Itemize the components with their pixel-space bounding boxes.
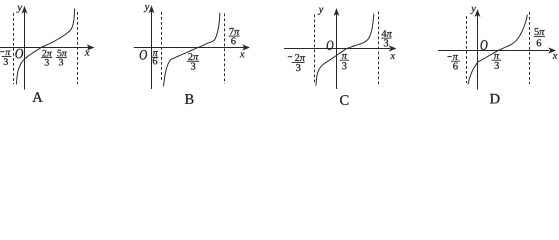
graph D x-axis (438, 50, 549, 52)
graph D right asymptote dashed (529, 12, 531, 84)
graph D left asymptote dashed (466, 16, 468, 83)
graph A choice letter A (32, 92, 42, 102)
graph B x-axis (134, 47, 244, 49)
graph C x label (390, 54, 395, 59)
graph D choice letter D (490, 94, 500, 104)
graph D label 5pi/6 numerator (535, 28, 545, 35)
graph B label 7pi/6 denominator (231, 37, 236, 44)
graph B label 2pi/3 bar (187, 60, 200, 62)
graph C label 4pi/3 bar (381, 37, 391, 39)
graph A label pi/3 denominator (4, 58, 8, 65)
graph A x label (85, 51, 90, 56)
graph C left asymptote dashed (314, 15, 316, 85)
graph D y label (470, 7, 476, 14)
graph C x-axis arrow (389, 45, 397, 51)
graph D y-axis arrow (475, 9, 481, 17)
graph B label 2pi/3 numerator (188, 53, 198, 60)
graph D origin O (481, 40, 488, 50)
graph B y-axis arrow (149, 5, 155, 13)
graph C y label (318, 8, 324, 15)
graph C right asymptote dashed (378, 12, 380, 85)
graph D y-axis (477, 11, 479, 90)
graph B left asymptote dashed (161, 12, 163, 80)
graph D x-axis arrow (548, 47, 556, 53)
graph C label 2pi/3 numerator (295, 54, 305, 61)
graph D label pi/6 bar (451, 60, 460, 62)
graph A label -pi/3 minus sign (0, 51, 4, 53)
graph A label 2pi/3 denominator (45, 59, 49, 66)
graph B origin O (140, 50, 147, 60)
graph A y label (17, 6, 23, 13)
graph C tangent curve (316, 14, 374, 86)
graph C label 4pi/3 numerator (382, 30, 392, 37)
graph D label 5pi/6 denominator (537, 39, 542, 46)
graph B label 2pi/3 denominator (191, 63, 195, 70)
graph B tangent curve (164, 13, 220, 86)
graph C x-axis (284, 48, 390, 50)
graph B y label (144, 5, 150, 12)
graph B label pi/6 bar (152, 56, 159, 58)
graph C label pi/3 bar (340, 59, 349, 61)
graph A label pi/3 numerator (5, 51, 10, 56)
graph A x-axis (0, 47, 89, 49)
graph A tangent curve (16, 9, 74, 84)
graph C y-axis (336, 10, 338, 89)
graph B label 7pi/6 numerator (230, 28, 240, 35)
graph B x-axis arrow (242, 44, 250, 50)
graph C label 4pi/3 denominator (384, 39, 388, 46)
graph C label pi/3 denominator (342, 62, 346, 69)
graph D x label (553, 54, 558, 59)
graph C label -2pi/3 minus sign (288, 56, 293, 58)
graph A y-axis arrow (22, 6, 28, 14)
graph A label 5pi/3 bar (56, 57, 67, 59)
graph C label 2pi/3 denominator (296, 64, 300, 71)
graph C y-axis arrow (334, 8, 340, 16)
graph B label 7pi/6 bar (229, 35, 240, 37)
graph A x-axis arrow (87, 44, 95, 50)
graph B label pi/6 numerator (153, 51, 158, 56)
graph D label pi/3 bar (492, 59, 501, 61)
graph C origin O (327, 41, 334, 50)
graph A label 5pi/3 numerator (58, 50, 67, 57)
graph B y-axis (151, 8, 153, 89)
graph C label 2pi/3 bar (292, 62, 305, 64)
graph D label pi/3 denominator (495, 62, 499, 69)
graph A origin O (15, 49, 23, 58)
graph D label -pi/6 minus sign (448, 56, 452, 58)
graph D label 5pi/6 bar (534, 35, 545, 37)
graph D label pi/6 denominator (453, 63, 458, 70)
graph A left asymptote dashed (13, 13, 15, 84)
graph A label 2pi/3 numerator (42, 50, 52, 57)
graph B right asymptote dashed (224, 14, 226, 85)
graph A y-axis (24, 8, 26, 90)
graph D label pi/3 numerator (494, 54, 499, 59)
graph B label pi/6 denominator (153, 57, 158, 64)
graph A label 2pi/3 bar (41, 57, 52, 59)
graph D label pi/6 numerator (453, 55, 458, 60)
graph D tangent curve (468, 15, 527, 84)
graph B choice letter B (185, 94, 194, 104)
graph A label 5pi/3 denominator (59, 59, 63, 66)
graph A label pi/3 bar (2, 56, 12, 58)
graph C label pi/3 numerator (342, 54, 347, 59)
graph B x label (240, 53, 245, 58)
graph C choice letter C (340, 95, 348, 105)
graph A right asymptote dashed (77, 12, 79, 84)
